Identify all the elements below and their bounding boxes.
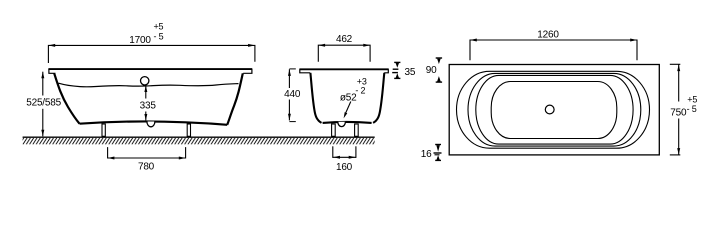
dimension 525/585 upper arrow — [41, 72, 44, 79]
dimension 1700 line with hooks — [48, 45, 255, 63]
dimension 750 upper line — [678, 65, 680, 102]
plan contour C2 — [468, 73, 641, 146]
dimension 525/585 upper line — [42, 72, 44, 96]
svg-text:1260: 1260 — [537, 30, 559, 41]
dimension 90 down arrow — [437, 59, 441, 64]
dimension 750 upper arrow — [677, 65, 680, 72]
tub rim top line (side view) — [48, 68, 252, 70]
dimension 440 lower line — [288, 100, 290, 121]
dimension 440 upper arrow — [288, 69, 291, 76]
dimension 335 lower arrow — [144, 114, 147, 121]
dimension 35 down arrow — [396, 63, 400, 68]
svg-text:160: 160 — [336, 162, 353, 173]
dimension 462 right arrow — [363, 44, 370, 47]
drain bump (side view) — [147, 122, 155, 127]
left rim lip (end view) — [300, 69, 310, 73]
rim top line (end view) — [299, 68, 388, 70]
dimension 780 left arrow — [108, 157, 115, 160]
dimension 1260 left arrow — [470, 39, 477, 42]
dimension 780 line with hooks — [108, 147, 186, 158]
drain bump (end view) — [338, 122, 346, 127]
dimension 35 upper edge bar — [393, 68, 399, 70]
right rim lip (end view) — [384, 69, 388, 73]
dimension 160 right extension — [355, 146, 357, 158]
dimension 335 lower line — [145, 112, 147, 121]
dimension 16 down arrow — [436, 145, 440, 152]
svg-text:- 2: - 2 — [355, 86, 365, 96]
dimension 160 line — [333, 156, 356, 158]
svg-text:440: 440 — [284, 89, 301, 100]
dimension 440 upper line — [288, 69, 290, 88]
dimension 525/585 lower line — [42, 109, 44, 137]
dimension 16 upper edge bar — [434, 152, 442, 154]
leader line to drain — [345, 102, 351, 115]
dimension 160 left arrow — [333, 156, 340, 159]
tub bottom (side view) — [80, 121, 228, 124]
dimension 462 left arrow — [318, 44, 325, 47]
plan contour C3 — [476, 75, 633, 144]
right rim lip — [243, 69, 252, 73]
dimension 90 bottom tick — [436, 81, 442, 83]
svg-text:780: 780 — [138, 162, 155, 173]
svg-text:90: 90 — [426, 65, 437, 76]
dimension 35 bottom tick — [394, 77, 400, 79]
left rim lip — [49, 69, 56, 73]
dimension 1260 right arrow — [630, 39, 637, 42]
svg-text:16: 16 — [421, 149, 432, 160]
tub bottom (end view) — [323, 122, 372, 123]
dimension 160 right arrow — [349, 156, 356, 159]
svg-text:462: 462 — [336, 34, 353, 45]
left foot (side view) — [102, 124, 105, 136]
water wavy line — [59, 83, 239, 87]
dimension 35 up arrow — [396, 73, 400, 78]
plan rim contour C1 — [457, 71, 650, 148]
ground hatching — [23, 138, 375, 144]
dimension 525/585 lower arrow — [41, 130, 44, 137]
svg-text:- 5: - 5 — [687, 104, 697, 114]
dimension 1700 right arrow — [248, 44, 255, 47]
right foot (end view) — [355, 124, 359, 136]
left wall (end view) — [310, 73, 321, 123]
svg-text:750: 750 — [670, 108, 687, 119]
right wall (end view) — [373, 73, 384, 123]
dimension 35 lower edge bar — [392, 72, 398, 74]
dimension 16 lower edge bar — [435, 154, 440, 156]
svg-text:525/585: 525/585 — [26, 98, 61, 109]
dimension 1700 left arrow — [48, 44, 55, 47]
dimension 440 bottom tick — [289, 121, 295, 123]
right end outer wall — [227, 73, 243, 125]
dimension 750 lower arrow — [677, 148, 680, 155]
dimension 90 top tick — [436, 57, 442, 59]
dimension 750 lower line — [678, 119, 680, 155]
dimension 750 bottom tick — [670, 154, 681, 156]
svg-text:35: 35 — [405, 67, 416, 78]
dimension 90 up arrow — [437, 76, 441, 81]
overflow circle — [141, 77, 149, 85]
dimension 1260 line with hooks — [470, 40, 637, 60]
plan inner bottom contour C4 — [491, 82, 617, 139]
dimension 462 line with hooks — [318, 45, 370, 62]
dimension 335 upper line — [145, 85, 147, 98]
left foot (end view) — [332, 124, 336, 136]
svg-text:335: 335 — [140, 101, 157, 112]
dimension 16 top tick — [435, 144, 441, 146]
dimension 16 bottom tick — [435, 159, 441, 161]
plan outer rectangle — [449, 65, 659, 155]
svg-text:1700: 1700 — [129, 35, 151, 46]
dimension 440 top tick — [289, 68, 295, 70]
svg-text:- 5: - 5 — [154, 32, 164, 42]
dimension 440 lower arrow — [288, 114, 291, 121]
dimension 780 right arrow — [179, 157, 186, 160]
right foot (side view) — [187, 124, 190, 136]
dimension 750 top tick — [670, 63, 681, 65]
plan drain circle — [545, 105, 554, 114]
dimension 160 left extension — [332, 146, 334, 158]
left end outer wall — [54, 73, 79, 123]
svg-text:+5: +5 — [154, 22, 164, 32]
dimension 35 top tick — [394, 61, 400, 63]
dimension 335 upper arrow — [144, 85, 147, 92]
dimension 16 up arrow — [436, 155, 440, 160]
ground line (shared by side and end views) — [23, 136, 375, 138]
leader arrowhead — [344, 112, 348, 118]
